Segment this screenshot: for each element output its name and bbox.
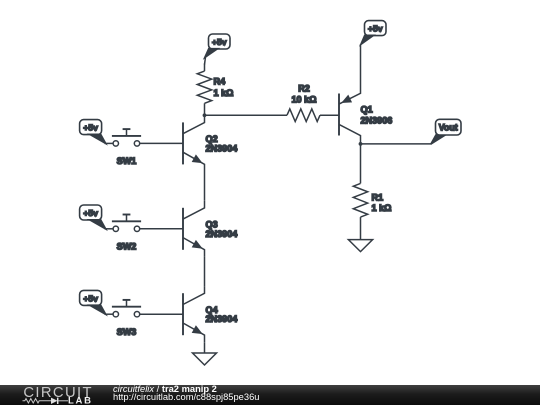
svg-text:2N3904: 2N3904	[206, 229, 239, 239]
svg-text:+5v: +5v	[83, 123, 98, 133]
svg-text:2N3904: 2N3904	[206, 314, 239, 324]
svg-text:R1: R1	[372, 192, 384, 202]
svg-text:R4: R4	[214, 76, 227, 86]
svg-text:+5v: +5v	[83, 208, 98, 218]
svg-text:+5v: +5v	[83, 293, 98, 303]
svg-text:SW3: SW3	[117, 327, 137, 337]
svg-text:10 kΩ: 10 kΩ	[292, 94, 317, 104]
svg-text:R2: R2	[298, 84, 310, 94]
svg-text:SW2: SW2	[117, 241, 137, 251]
svg-text:SW1: SW1	[117, 156, 137, 166]
svg-text:LAB: LAB	[68, 396, 93, 405]
svg-text:2N3906: 2N3906	[361, 115, 393, 125]
svg-text:+5v: +5v	[212, 37, 227, 47]
svg-text:1 kΩ: 1 kΩ	[372, 203, 392, 213]
svg-text:Vout: Vout	[439, 123, 458, 133]
svg-text:Q1: Q1	[361, 104, 373, 114]
svg-text:1 kΩ: 1 kΩ	[214, 88, 234, 98]
svg-text:+5v: +5v	[368, 24, 383, 34]
svg-text:2N3904: 2N3904	[206, 143, 239, 153]
